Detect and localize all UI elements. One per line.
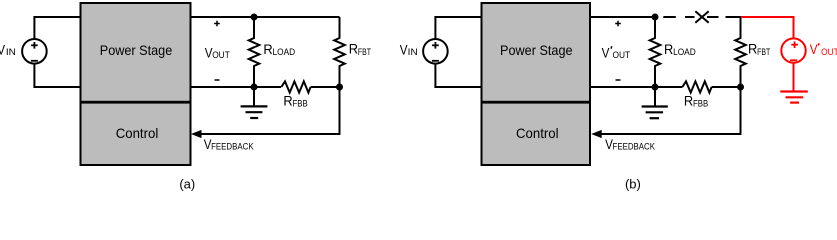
label RFBT (b) <box>748 41 770 58</box>
arrowhead feedback into Control (b) <box>591 130 602 138</box>
label RFBB (a) <box>283 93 307 110</box>
label VFEEDBACK (b) <box>605 136 655 153</box>
svg-text:Power Stage: Power Stage <box>500 42 573 58</box>
wire VIN bottom to Power Stage (a) <box>34 64 80 88</box>
wire feedback (a) <box>196 87 340 134</box>
red wire RFBT top to V'OUT source <box>741 17 794 39</box>
resistor RLOAD (a) <box>249 17 260 87</box>
Power Stage box (b) <box>482 3 591 102</box>
label VIN (b) <box>400 42 418 58</box>
svg-text:FEEDBACK: FEEDBACK <box>211 142 254 153</box>
wire VIN bottom to Power Stage (b) <box>435 64 481 88</box>
wire RFBB to RFBT node (a) <box>311 86 340 88</box>
resistor RFBT (b) <box>735 16 746 87</box>
red voltage source V'OUT <box>781 38 805 62</box>
Control box (a) <box>81 103 191 165</box>
label RFBT (a) <box>349 41 371 58</box>
svg-text:R: R <box>748 41 757 57</box>
resistor RLOAD (b) <box>650 17 661 87</box>
svg-text:IN: IN <box>408 47 418 58</box>
plus terminal mark (b) <box>615 21 621 27</box>
junction node RLOAD bottom ground (b) <box>652 84 659 91</box>
plus terminal mark (a) <box>214 21 220 27</box>
wire Power Stage output top (a) <box>192 16 340 18</box>
voltage source VIN (b) <box>423 39 448 64</box>
junction node feedback (b) <box>737 84 744 91</box>
label V'OUT (b) <box>602 44 631 61</box>
ground symbol (b) <box>642 87 668 118</box>
svg-text:Power Stage: Power Stage <box>100 42 173 58</box>
svg-text:V: V <box>602 44 610 60</box>
voltage source VIN (a) <box>22 39 47 64</box>
svg-text:LOAD: LOAD <box>673 47 696 58</box>
Power Stage box (a) <box>81 3 191 102</box>
junction node RLOAD bottom ground (a) <box>251 84 258 91</box>
junction node feedback (a) <box>336 84 343 91</box>
minus terminal mark (b) <box>616 79 621 81</box>
dashed broken wire (b) <box>663 16 740 18</box>
svg-text:OUT: OUT <box>613 50 631 61</box>
svg-text:R: R <box>349 41 358 57</box>
label VOUT (a) <box>205 44 230 61</box>
wire RFBB to RFBT node (b) <box>712 86 741 88</box>
svg-text:R: R <box>684 93 693 109</box>
resistor RFBT (a) <box>334 17 345 87</box>
svg-text:(a): (a) <box>179 177 195 192</box>
resistor RFBB (b) <box>682 81 711 92</box>
label RFBB (b) <box>684 93 708 110</box>
wire Power Stage return bottom (b) <box>590 86 682 88</box>
svg-text:R: R <box>664 41 673 57</box>
svg-text:(b): (b) <box>625 177 641 192</box>
svg-text:V: V <box>810 41 818 57</box>
wire feedback (b) <box>596 87 741 134</box>
break X symbol (b) <box>695 11 708 23</box>
ground symbol (a) <box>241 87 268 118</box>
minus terminal mark (a) <box>215 79 220 81</box>
svg-text:FBT: FBT <box>757 47 770 58</box>
wire Power Stage return bottom (a) <box>192 86 282 88</box>
junction node V'OUT top (b) <box>652 14 659 21</box>
svg-text:R: R <box>283 93 292 109</box>
resistor RFBB (a) <box>281 81 310 92</box>
label RLOAD (a) <box>263 41 295 58</box>
arrowhead feedback into Control (a) <box>191 130 202 138</box>
Control box (b) <box>482 103 591 165</box>
red ground symbol <box>780 92 808 103</box>
svg-text:R: R <box>263 41 272 57</box>
svg-text:Control: Control <box>516 125 559 141</box>
wire Power Stage output top (b) <box>590 16 655 18</box>
svg-text:V: V <box>0 42 6 58</box>
svg-text:FBB: FBB <box>693 99 708 110</box>
svg-text:FBB: FBB <box>293 99 308 110</box>
svg-text:Control: Control <box>116 125 159 141</box>
junction node VOUT top (a) <box>251 14 258 21</box>
svg-text:FEEDBACK: FEEDBACK <box>613 142 656 153</box>
svg-text:FBT: FBT <box>358 47 371 58</box>
svg-text:OUT: OUT <box>212 50 230 61</box>
label VFEEDBACK (a) <box>204 136 254 153</box>
svg-text:LOAD: LOAD <box>273 47 296 58</box>
red label V'OUT <box>810 41 837 58</box>
label RLOAD (b) <box>664 41 696 58</box>
svg-text:IN: IN <box>6 47 16 58</box>
wire VIN top to Power Stage (b) <box>435 17 481 39</box>
svg-text:OUT: OUT <box>821 47 837 58</box>
red wire V'OUT source to ground <box>793 63 795 92</box>
label VIN (a) <box>0 42 16 58</box>
wire VIN top to Power Stage (a) <box>34 17 80 39</box>
